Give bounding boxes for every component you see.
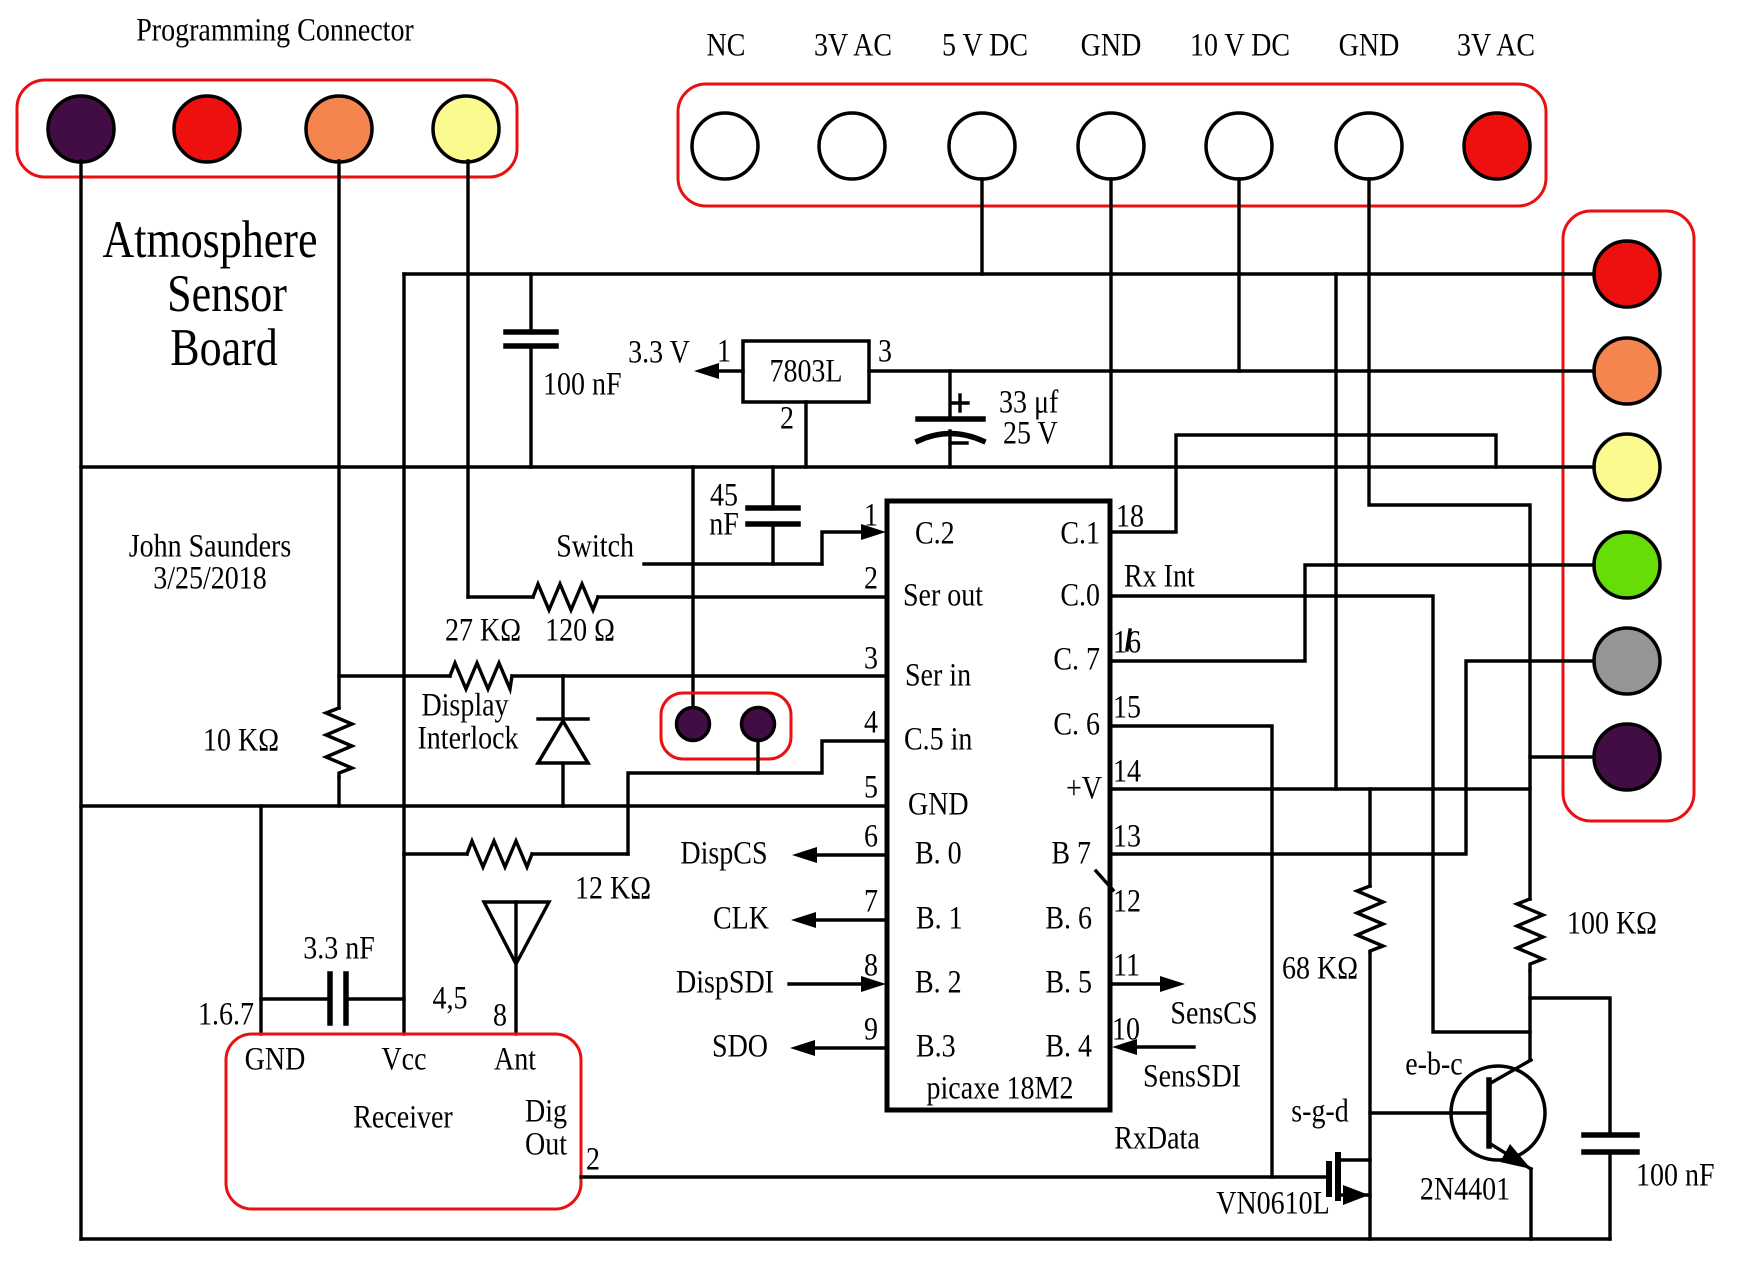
svg-text:CLK: CLK [713,900,769,936]
capacitor 100 nF bottom [1584,1132,1637,1138]
svg-text:C. 6: C. 6 [1053,706,1100,742]
svg-text:25 V: 25 V [1003,415,1058,451]
svg-text:NC: NC [707,27,746,63]
svg-text:2: 2 [780,400,794,436]
wire pin11 SensCS arrow [1110,982,1163,985]
wire 5 V DC drop [980,179,983,274]
resistor 12 K ohm [467,841,532,867]
pin P1 purple [48,96,114,162]
svg-text:11: 11 [1113,947,1140,983]
svg-text:C.1: C.1 [1060,515,1100,551]
connector J2 power (red rounded box) [678,84,1546,206]
svg-text:3.3 V: 3.3 V [628,334,690,370]
wire pin10 SensSDI arrow [1134,1045,1194,1048]
svg-text:Rx Int: Rx Int [1124,558,1195,594]
pin GND [1078,113,1144,179]
pin 3V AC red [1464,113,1530,179]
LED gray [1594,628,1660,694]
svg-text:5 V DC: 5 V DC [942,27,1028,63]
svg-text:B. 2: B. 2 [915,964,962,1000]
svg-text:B. 1: B. 1 [916,900,963,936]
svg-text:3: 3 [864,640,878,676]
svg-text:Board: Board [170,318,277,377]
pin P2 red [174,96,240,162]
svg-text:Ser in: Ser in [905,657,971,693]
svg-text:Dig: Dig [525,1093,567,1129]
wire switch step to pin1 [822,532,864,564]
svg-text:VN0610L: VN0610L [1216,1185,1330,1221]
svg-text:C.0: C.0 [1060,577,1100,613]
wire 7803 pin1 arrow out [714,369,743,372]
wire Ser out to pin2 [598,595,887,598]
svg-text:2: 2 [586,1141,600,1177]
wire interlock pin A drop [691,467,694,707]
pin interlock B [742,708,775,741]
svg-text:Sensor: Sensor [167,264,287,323]
svg-text:120 Ω: 120 Ω [545,612,615,648]
svg-text:14: 14 [1113,753,1141,789]
svg-text:100 KΩ: 100 KΩ [1567,905,1657,941]
LED orange [1594,338,1660,404]
wire Ser in to pin3 [512,674,887,677]
svg-text:SensCS: SensCS [1170,995,1257,1031]
svg-text:27 KΩ: 27 KΩ [445,612,521,648]
wire purple LED branch y757 [1530,755,1594,758]
wire 12K line right [532,852,628,855]
resistor 68 K ohm [1357,886,1383,952]
svg-text:2: 2 [864,560,878,596]
svg-text:6: 6 [864,818,878,854]
pin NC [692,113,758,179]
svg-text:Programming Connector: Programming Connector [136,12,414,48]
regulator U2 7803L [743,341,869,402]
resistor 120 ohm [533,584,598,610]
wire pin18 step to yellow LED [1110,435,1496,532]
wire 7803 pin2 down [804,402,807,467]
svg-text:12: 12 [1113,883,1141,919]
svg-text:Ant: Ant [494,1041,537,1077]
svg-text:B. 5: B. 5 [1045,964,1092,1000]
wire pin17 C.0 RxData net [1110,596,1530,1032]
antenna symbol [484,902,549,964]
wire 12K line left [404,852,467,855]
wire +V line y789 [1110,787,1530,790]
wire switch line y564 [644,562,822,565]
wire GND1 drop [1109,179,1112,467]
svg-text:Receiver: Receiver [353,1099,452,1135]
wire 5VDC feed corner x404 [402,274,405,1034]
svg-text:Switch: Switch [556,528,634,564]
pin P3 orange [306,96,372,162]
svg-text:SDO: SDO [712,1028,768,1064]
svg-text:nF: nF [709,506,739,542]
artifact diagonal near pin 12 [1096,871,1113,890]
svg-text:+V: +V [1066,770,1102,806]
svg-text:John Saunders: John Saunders [129,528,292,564]
resistor 10 K ohm [326,708,352,777]
svg-text:10 KΩ: 10 KΩ [203,722,279,758]
svg-text:68 KΩ: 68 KΩ [1282,950,1358,986]
wire prog pin3 drop [337,161,340,708]
wire pin15 C.6 to Dig Out [1110,726,1272,1177]
artifact stroke over 16 [1127,630,1130,650]
svg-text:SensSDI: SensSDI [1143,1058,1241,1094]
connector J3 LEDs (red rounded box) [1563,211,1694,821]
svg-text:picaxe 18M2: picaxe 18M2 [927,1070,1074,1106]
svg-text:GND: GND [908,786,969,822]
svg-text:7: 7 [864,883,878,919]
wire pin9 SDO arrow [812,1046,887,1049]
svg-text:GND: GND [245,1041,306,1077]
svg-text:8: 8 [493,997,507,1033]
wire branch x1336 red line to +V [1334,274,1337,789]
svg-text:e-b-c: e-b-c [1405,1046,1462,1082]
svg-text:Interlock: Interlock [417,720,519,756]
svg-text:Display: Display [421,687,509,723]
svg-text:10 V DC: 10 V DC [1190,27,1290,63]
svg-text:4,5: 4,5 [433,980,468,1016]
svg-text:C. 7: C. 7 [1053,641,1100,677]
svg-text:9: 9 [864,1011,878,1047]
wire 10VDC drop [1237,179,1240,371]
LED purple [1594,724,1660,790]
svg-text:B. 0: B. 0 [915,835,962,871]
wire GND2 drop and step [1369,179,1530,899]
svg-text:5: 5 [864,769,878,805]
svg-text:Vcc: Vcc [381,1041,426,1077]
pin GND2 [1336,113,1402,179]
wire 7803 pin3 to orange LED y371 [869,369,1594,372]
svg-text:3V AC: 3V AC [1457,27,1535,63]
wire base lead 2N4401 [1370,1111,1489,1114]
svg-text:C.5 in: C.5 in [904,721,972,757]
wire bottom rail [81,1237,1610,1240]
wire red LED line y274 [404,272,1594,275]
resistor 27 K ohm [450,663,512,689]
wire RC node to 100nF [1530,998,1610,1135]
svg-text:s-g-d: s-g-d [1291,1093,1349,1129]
wire left border (prog pin1 to ground rail) [79,161,82,1239]
svg-text:1: 1 [864,497,878,533]
svg-text:GND: GND [1081,27,1142,63]
svg-text:13: 13 [1113,818,1141,854]
svg-text:3.3 nF: 3.3 nF [303,930,375,966]
svg-text:8: 8 [864,947,878,983]
svg-text:B.3: B.3 [916,1028,956,1064]
LED green [1594,532,1660,598]
svg-text:4: 4 [864,704,878,740]
svg-text:Out: Out [525,1126,568,1162]
svg-text:DispSDI: DispSDI [676,964,774,1000]
svg-text:3: 3 [878,333,892,369]
svg-text:1: 1 [717,333,731,369]
label plus sign [952,401,968,404]
capacitor 45 nF [771,467,774,508]
svg-text:B. 6: B. 6 [1045,900,1092,936]
svg-text:100 nF: 100 nF [543,366,622,402]
svg-text:100 nF: 100 nF [1636,1157,1715,1193]
wire receiver GND drop [259,806,262,1034]
svg-text:B. 4: B. 4 [1045,1028,1092,1064]
IC U1 picaxe 18M2 body [887,501,1110,1110]
wire 100K down to collector [1528,971,1531,1060]
diode Display Interlock [538,717,588,720]
wire pin16 C.7 to green LED [1110,565,1594,661]
transistor Q2 VN0610L MOSFET [1326,1161,1332,1197]
svg-text:7803L: 7803L [769,353,842,389]
wire diode branch [561,676,564,806]
wire pin7 CLK arrow [813,918,887,921]
connector J4 interlock (red rounded box) [661,693,791,759]
connector J1 programming (red rounded box) [17,80,517,177]
svg-text:18: 18 [1116,498,1144,534]
wire 68K to drain [1368,952,1371,1160]
svg-text:1.6.7: 1.6.7 [198,996,254,1032]
wire pin6 DispCS arrow [814,853,887,856]
module receiver (red rounded box) [226,1034,581,1209]
svg-text:3V AC: 3V AC [814,27,892,63]
pin P4 yellow [433,96,499,162]
svg-text:Atmosphere: Atmosphere [103,210,318,269]
wire pin13 B7 to gray LED [1110,661,1594,854]
svg-text:RxData: RxData [1114,1120,1200,1156]
wire Ser out left segment [468,595,533,598]
transistor Q1 2N4401 [1451,1066,1545,1160]
svg-text:B 7: B 7 [1051,835,1091,871]
capacitor 100 nF top [529,274,532,332]
LED red [1594,241,1660,307]
svg-text:2N4401: 2N4401 [1420,1171,1510,1207]
pin 10 V DC [1206,113,1272,179]
wire ground bus y806 [81,804,887,807]
svg-text:GND: GND [1339,27,1400,63]
LED yellow [1594,434,1660,500]
svg-text:DispCS: DispCS [680,835,767,871]
wire mid bus y467 [81,465,1594,468]
wire pin8 DispSDI arrow [789,982,864,985]
wire interlock pin B to C.5 in [758,741,887,773]
svg-text:15: 15 [1113,689,1141,725]
wire C.5 in to 12K [628,773,758,854]
svg-text:C.2: C.2 [915,515,955,551]
wire prog pin4 drop [466,161,469,597]
svg-text:Ser out: Ser out [903,577,984,613]
capacitor 33 uf 25 V [948,371,951,419]
wire 68K branch top [1368,789,1371,886]
resistor 100 K ohm [1517,899,1543,971]
capacitor 3.3 nF [261,997,330,1000]
wire Ser in left segment [339,674,450,677]
wire 10K to ground bus [337,777,340,806]
pin 3V AC [819,113,885,179]
wire Dig Out to MOSFET gate [581,1175,1329,1178]
pin interlock A [677,708,710,741]
svg-text:3/25/2018: 3/25/2018 [153,560,267,596]
pin 5 V DC [949,113,1015,179]
svg-text:12 KΩ: 12 KΩ [575,870,651,906]
